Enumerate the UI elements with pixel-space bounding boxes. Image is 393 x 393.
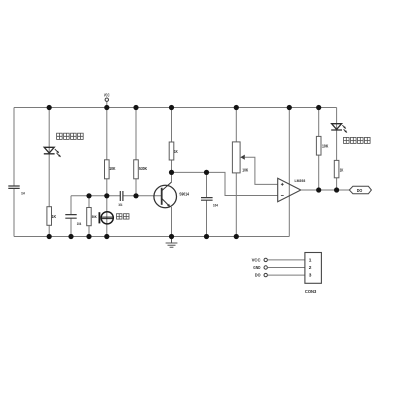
- wire potentiometer branch: [235, 108, 237, 237]
- resistor R5 50K: [87, 208, 92, 226]
- svg-text:530K: 530K: [139, 166, 148, 171]
- wire mic signal line: [71, 195, 161, 197]
- resistor R8 1K: [334, 160, 339, 177]
- svg-text:10K: 10K: [242, 167, 249, 172]
- potentiometer RP1 10K: [232, 142, 240, 173]
- wire connector pin 2: [268, 267, 305, 269]
- wire wiper to comparator plus input: [245, 157, 278, 184]
- wire top VCC rail: [14, 107, 337, 109]
- wire comparator output: [301, 189, 350, 191]
- capacitor C4 104: [201, 198, 213, 201]
- connector pin circles: [264, 258, 267, 277]
- svg-text:3: 3: [309, 273, 312, 279]
- svg-text:GND: GND: [253, 265, 260, 270]
- ground symbol: [166, 239, 178, 247]
- svg-text:VCC: VCC: [252, 257, 262, 262]
- wire LED1 branch: [48, 108, 50, 237]
- wire mic branch: [106, 196, 108, 237]
- svg-text:1K: 1K: [340, 168, 344, 173]
- wire emitter down: [171, 207, 173, 237]
- wire LED2 branch: [336, 108, 338, 191]
- LED D2 switch indicator: [331, 124, 346, 132]
- transistor Q1 emitter arrow: [167, 204, 170, 207]
- svg-text:104: 104: [21, 191, 25, 195]
- wire C2 branch: [70, 196, 72, 237]
- wire pull-up branch: [318, 108, 320, 191]
- svg-text:1: 1: [309, 258, 312, 264]
- wire left battery branch: [13, 108, 15, 237]
- resistor R1 1K (below LED1): [47, 207, 52, 226]
- wire R5 branch: [88, 196, 90, 237]
- resistor R7 10K pull-up: [316, 136, 321, 155]
- svg-text:50K: 50K: [92, 215, 97, 219]
- LED D1 power indicator: [44, 147, 59, 155]
- svg-text:VCC: VCC: [104, 93, 110, 98]
- svg-text:S9014: S9014: [179, 191, 189, 196]
- wire 530K branch: [135, 108, 137, 196]
- VCC terminal: [106, 101, 108, 107]
- transistor Q1 S9014: [154, 182, 177, 208]
- svg-text:CON3: CON3: [305, 289, 317, 295]
- svg-text:104: 104: [213, 203, 219, 207]
- wire bottom ground rail: [14, 236, 289, 238]
- wire collector node to comparator minus input: [172, 172, 278, 195]
- svg-text:1K: 1K: [174, 149, 178, 154]
- node DO output flag: [349, 186, 371, 193]
- resistor R3 530K: [134, 160, 139, 179]
- microphone MK1: [99, 212, 113, 224]
- connector CON3 body: [305, 253, 322, 284]
- op-amp U1 LM393: [278, 178, 301, 201]
- svg-text:10K: 10K: [109, 166, 116, 171]
- op-amp plus input mark: [281, 183, 284, 186]
- wire collector load branch: [171, 108, 173, 173]
- svg-text:2: 2: [309, 265, 312, 271]
- svg-text:DO: DO: [357, 188, 363, 193]
- label 电源指示 (power indicator): [57, 133, 84, 139]
- LED D2 arrow heads: [343, 126, 347, 133]
- capacitor C2 104: [65, 215, 76, 219]
- svg-text:104: 104: [77, 222, 82, 226]
- potentiometer wiper arrow: [240, 155, 245, 160]
- capacitor C3 104 (series coupling): [120, 191, 123, 201]
- op-amp minus input mark: [281, 195, 284, 197]
- wire C4 branch: [206, 172, 208, 236]
- svg-text:LM393: LM393: [295, 178, 306, 183]
- svg-text:104: 104: [118, 203, 122, 207]
- wire R2 branch: [106, 108, 108, 196]
- capacitor C1 104 (left): [8, 186, 19, 188]
- resistor R2 10K: [105, 160, 110, 179]
- label 开关指示 (switch indicator): [344, 137, 371, 143]
- wire op-amp supply vertical: [288, 108, 290, 237]
- LED D1 arrow heads: [56, 151, 61, 158]
- wire connector pin 3: [268, 274, 305, 276]
- svg-text:DO: DO: [255, 273, 261, 278]
- label 话筒 (microphone): [117, 214, 130, 219]
- resistor R4 1K: [169, 142, 174, 160]
- wire collector up: [171, 172, 173, 182]
- wire connector pin 1: [268, 259, 305, 261]
- svg-text:10K: 10K: [322, 143, 329, 148]
- svg-text:1K: 1K: [52, 214, 57, 219]
